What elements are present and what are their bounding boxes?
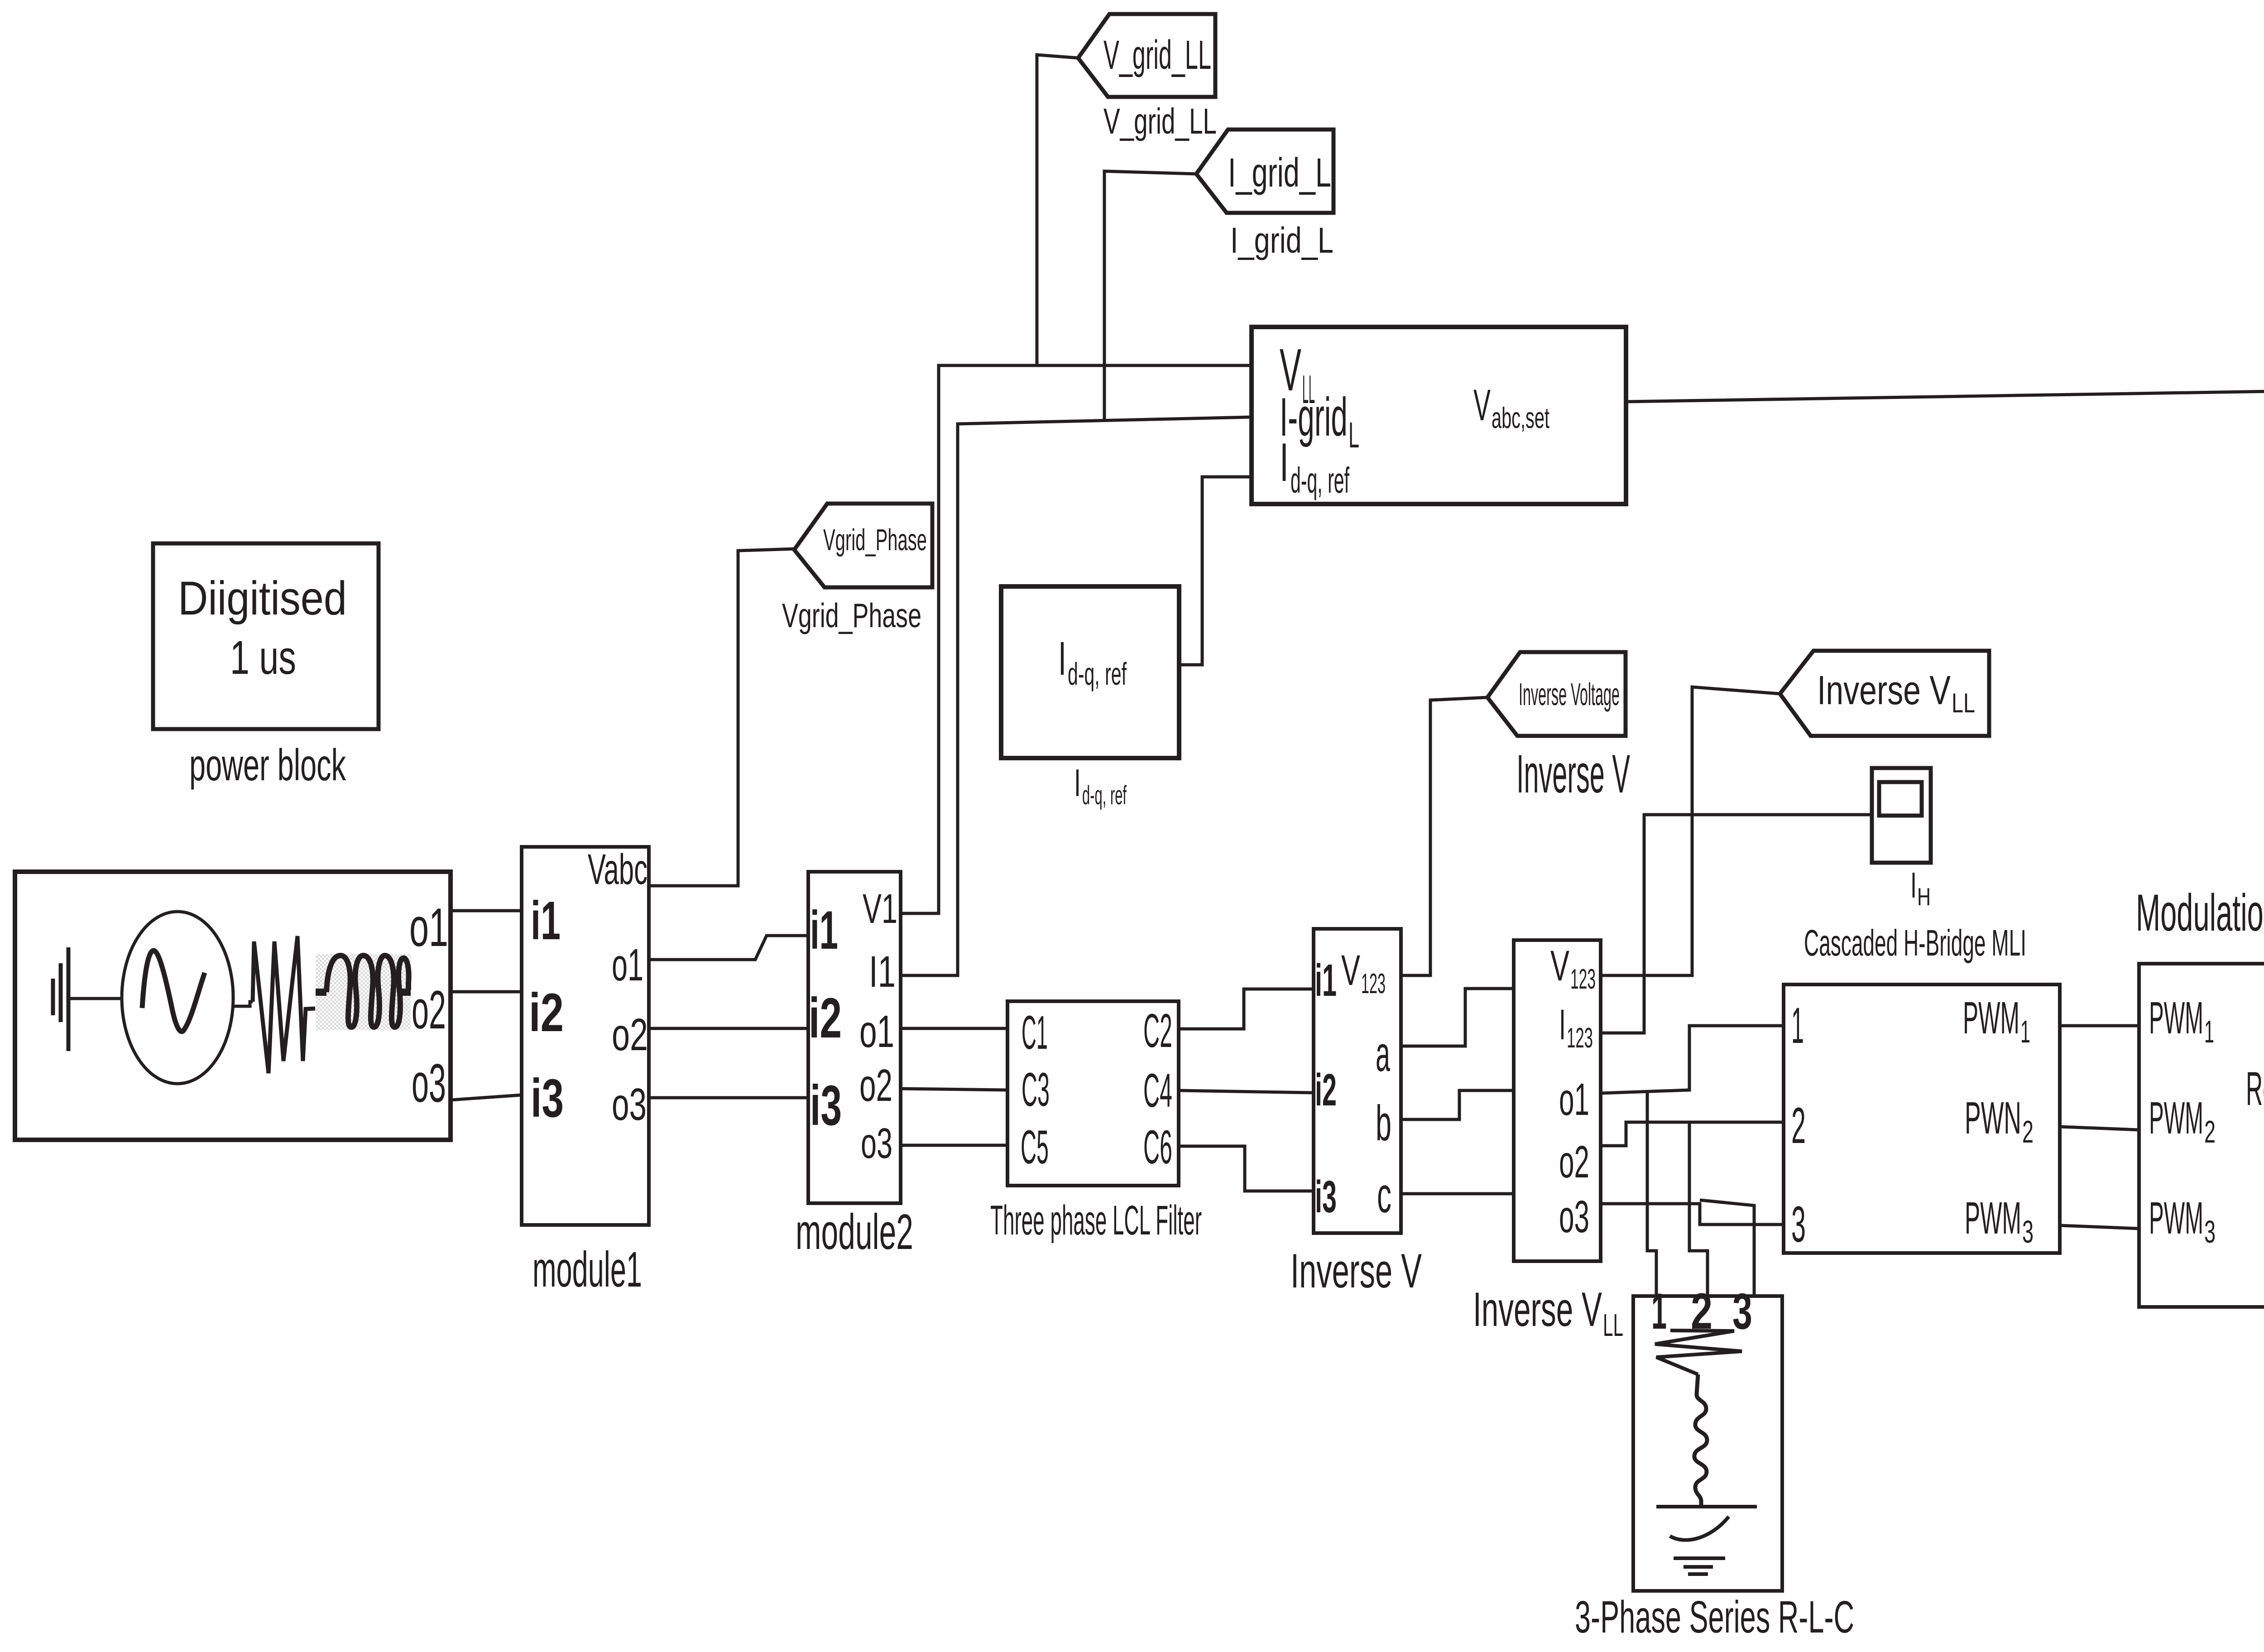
svg-text:PWM: PWM bbox=[1963, 993, 2019, 1043]
pin i2 (Inverse V) bbox=[1315, 1065, 1337, 1115]
svg-text:I-grid: I-grid bbox=[1280, 387, 1348, 447]
wire branch o3 to RLC 3 bbox=[1700, 1200, 1754, 1296]
svg-text:I: I bbox=[1280, 432, 1289, 493]
svg-text:LL: LL bbox=[1603, 1307, 1623, 1343]
svg-text:o2: o2 bbox=[612, 1009, 648, 1060]
inductor L1 bbox=[316, 954, 411, 1030]
svg-text:H: H bbox=[1917, 883, 1931, 911]
pin o3 (power block) bbox=[412, 1053, 446, 1114]
Modulation block bbox=[2139, 964, 2264, 1307]
svg-text:123: 123 bbox=[1361, 968, 1386, 999]
pin o1 (Inverse VLL) bbox=[1559, 1074, 1589, 1125]
svg-text:i1: i1 bbox=[1315, 955, 1337, 1006]
pin C5 bbox=[1021, 1121, 1049, 1174]
ground bbox=[53, 947, 68, 1051]
svg-text:c: c bbox=[1377, 1167, 1391, 1223]
svg-text:1: 1 bbox=[1651, 1283, 1667, 1340]
svg-text:PWM: PWM bbox=[2149, 993, 2203, 1043]
pin I-gridL (controller) bbox=[1280, 387, 1359, 455]
wire Inverse VLL I123 to scope IH bbox=[1601, 815, 1871, 1033]
svg-text:C3: C3 bbox=[1022, 1063, 1050, 1116]
pin Id-q,ref (controller) bbox=[1280, 432, 1349, 500]
svg-text:Inverse V: Inverse V bbox=[1516, 744, 1630, 804]
svg-text:123: 123 bbox=[1570, 964, 1596, 995]
label Inverse VLL (below block) bbox=[1473, 1282, 1623, 1343]
svg-text:i1: i1 bbox=[531, 890, 561, 951]
label IH bbox=[1910, 865, 1931, 911]
wire Inverse VLL o2 to H-bridge 2 bbox=[1601, 1122, 1784, 1146]
svg-text:PWM: PWM bbox=[1965, 1193, 2021, 1244]
label module2 bbox=[796, 1204, 913, 1260]
wire module1 o2 to module2 i2 bbox=[649, 1027, 808, 1030]
wire module2 V1 to controller VLL bbox=[901, 365, 1252, 913]
svg-text:I1: I1 bbox=[869, 947, 896, 996]
resistor R1 bbox=[253, 936, 315, 1073]
wire module2 o3 to LCL C5 bbox=[901, 1144, 1007, 1147]
pin 3 (H-bridge) bbox=[1791, 1196, 1806, 1253]
wire controller Vabc,set to modulation Ref. Signal bbox=[1626, 389, 2264, 1072]
svg-text:2: 2 bbox=[2022, 1114, 2034, 1149]
pin o2 (module2) bbox=[859, 1060, 892, 1111]
label Inverse V (below block) bbox=[1290, 1244, 1422, 1298]
pin i3 (module1) bbox=[531, 1068, 564, 1129]
svg-text:123: 123 bbox=[1567, 1023, 1593, 1054]
label Cascaded H-Bridge MLI bbox=[1804, 922, 2026, 964]
svg-text:module2: module2 bbox=[796, 1204, 913, 1260]
svg-text:3: 3 bbox=[2022, 1214, 2034, 1249]
wire Inverse V V123 to Inverse Voltage tag bbox=[1401, 697, 1487, 975]
wire H-bridge PWM3 to modulation PWM3 bbox=[2060, 1225, 2139, 1229]
wire power o2 to module1 i2 bbox=[451, 990, 522, 994]
svg-text:I_grid_L: I_grid_L bbox=[1230, 220, 1333, 260]
svg-text:2: 2 bbox=[2204, 1114, 2216, 1149]
svg-text:abc,set: abc,set bbox=[1492, 401, 1549, 434]
svg-text:PWM: PWM bbox=[2149, 1093, 2203, 1143]
svg-text:3: 3 bbox=[1791, 1196, 1806, 1253]
svg-text:Inverse V: Inverse V bbox=[1290, 1244, 1422, 1298]
wire Inverse V c to Inverse VLL o-row bbox=[1401, 1192, 1514, 1196]
wire Inverse VLL V123 to Inverse VLL tag bbox=[1601, 687, 1780, 975]
pin c (Inverse V) bbox=[1377, 1167, 1391, 1223]
svg-text:b: b bbox=[1376, 1095, 1391, 1151]
wire Inverse VLL o3 to H-bridge 3 bbox=[1601, 1204, 1784, 1225]
svg-text:o2: o2 bbox=[859, 1060, 892, 1111]
svg-text:i2: i2 bbox=[809, 987, 842, 1050]
pin o2 (power block) bbox=[412, 980, 446, 1040]
svg-text:3-Phase Series R-L-C: 3-Phase Series R-L-C bbox=[1575, 1592, 1854, 1642]
pin o1 (power block) bbox=[409, 897, 448, 958]
pin PWM3 (modulation) bbox=[2149, 1193, 2216, 1249]
pin o2 (module1) bbox=[612, 1009, 648, 1060]
label power block bbox=[189, 740, 346, 790]
wire Inverse VLL o1 to H-bridge 1 bbox=[1601, 1026, 1784, 1093]
label I_grid_L bbox=[1230, 220, 1333, 260]
svg-text:module1: module1 bbox=[532, 1242, 642, 1297]
svg-text:d-q, ref: d-q, ref bbox=[1082, 781, 1127, 810]
svg-text:o1: o1 bbox=[859, 1006, 894, 1057]
wire H-bridge PWN2 to modulation PWM2 bbox=[2060, 1127, 2139, 1130]
svg-text:1: 1 bbox=[2204, 1014, 2214, 1049]
pin i1 (module2) bbox=[810, 900, 838, 960]
LCL filter block bbox=[1007, 1001, 1179, 1186]
pin PWM1 (modulation) bbox=[2149, 993, 2214, 1049]
pin C4 bbox=[1143, 1064, 1172, 1117]
wire H-bridge PWM1 to modulation PWM1 bbox=[2060, 1024, 2139, 1028]
svg-text:I: I bbox=[1058, 632, 1066, 685]
pin a (Inverse V) bbox=[1376, 1026, 1390, 1082]
module1 block bbox=[522, 847, 649, 1225]
pin I123 (Inverse VLL) bbox=[1559, 1001, 1593, 1054]
svg-text:C2: C2 bbox=[1143, 1004, 1172, 1057]
svg-text:V: V bbox=[1341, 946, 1360, 994]
pin C6 bbox=[1143, 1121, 1172, 1174]
AC voltage source V1 bbox=[122, 912, 233, 1084]
svg-text:V_grid_LL: V_grid_LL bbox=[1103, 101, 1217, 141]
pin i2 (module2) bbox=[809, 987, 842, 1050]
svg-text:1 us: 1 us bbox=[230, 631, 296, 684]
label V_grid_LL bbox=[1103, 101, 1217, 141]
label 3-Phase Series R-L-C bbox=[1575, 1592, 1854, 1642]
wire branch o2 to RLC 2 bbox=[1689, 1122, 1708, 1296]
label Diigitised 1 us bbox=[178, 572, 347, 684]
svg-text:2: 2 bbox=[1791, 1097, 1806, 1154]
svg-text:L: L bbox=[1348, 415, 1359, 455]
wire module1 Vabc to Vgrid_Phase tag bbox=[649, 549, 794, 886]
svg-text:I: I bbox=[1074, 762, 1081, 805]
svg-text:LL: LL bbox=[1952, 688, 1975, 718]
pin b (Inverse V) bbox=[1376, 1095, 1391, 1151]
pin 1 (H-bridge) bbox=[1791, 997, 1804, 1054]
svg-text:o2: o2 bbox=[412, 980, 446, 1040]
pin PWM2 (modulation) bbox=[2149, 1093, 2216, 1149]
svg-text:o3: o3 bbox=[861, 1119, 892, 1167]
svg-text:a: a bbox=[1376, 1026, 1390, 1082]
goto tag V_grid_LL bbox=[1078, 14, 1215, 97]
pin V1 (module2) bbox=[863, 886, 897, 932]
label Three phase LCL Filter bbox=[990, 1197, 1202, 1244]
wire module2 o1 to LCL C1 bbox=[901, 1027, 1007, 1030]
Cascaded H-Bridge MLI block bbox=[1784, 984, 2060, 1253]
svg-text:d-q, ref: d-q, ref bbox=[1068, 656, 1127, 692]
svg-text:Inverse V: Inverse V bbox=[1817, 668, 1951, 713]
wire module2 I1 to controller I-gridL bbox=[901, 417, 1252, 975]
inductor L (RLC) bbox=[1694, 1374, 1707, 1507]
wire branch to V_grid_LL tag bbox=[1037, 55, 1078, 365]
svg-text:o3: o3 bbox=[612, 1079, 647, 1130]
pin o1 (module1) bbox=[612, 940, 643, 990]
svg-text:C5: C5 bbox=[1021, 1121, 1049, 1174]
goto tag Inverse VLL bbox=[1780, 651, 1989, 736]
svg-text:o1: o1 bbox=[612, 940, 643, 990]
pin 2 (RLC) bbox=[1691, 1283, 1712, 1340]
svg-text:o1: o1 bbox=[1559, 1074, 1589, 1125]
wire branch o1 to RLC 1 bbox=[1647, 1092, 1656, 1296]
wire Id-q,ref source to controller bbox=[1179, 477, 1252, 665]
wire source to resistor bbox=[233, 1002, 253, 1006]
svg-text:1: 1 bbox=[1791, 997, 1804, 1054]
svg-text:Ref. Signal: Ref. Signal bbox=[2246, 1062, 2264, 1115]
pin i1 (module1) bbox=[531, 890, 561, 951]
Inverse VLL block bbox=[1514, 940, 1601, 1261]
svg-text:C6: C6 bbox=[1143, 1121, 1172, 1174]
wire Inverse V b to Inverse VLL I123 bbox=[1401, 1090, 1514, 1119]
wire ground to source bbox=[68, 997, 122, 1000]
wire module1 o1 to module2 i1 bbox=[649, 936, 808, 960]
pin Vabc (module1) bbox=[588, 845, 648, 893]
label Modulation Block bbox=[2136, 884, 2264, 942]
pin PWM3 (H-bridge) bbox=[1965, 1193, 2034, 1249]
svg-text:C1: C1 bbox=[1022, 1006, 1048, 1059]
pin V123 (Inverse V) bbox=[1341, 946, 1386, 999]
wire LCL C6 to Inverse V i3 bbox=[1179, 1146, 1314, 1191]
label Id-q,ref (below) bbox=[1074, 762, 1127, 810]
wire Inverse V a to Inverse VLL V123 bbox=[1401, 989, 1514, 1046]
label module1 bbox=[532, 1242, 642, 1297]
svg-text:i3: i3 bbox=[1315, 1172, 1337, 1222]
pin I1 (module2) bbox=[869, 947, 896, 996]
label Vgrid_Phase bbox=[782, 596, 921, 634]
svg-text:Vgrid_Phase: Vgrid_Phase bbox=[823, 523, 927, 557]
goto tag Vgrid_Phase bbox=[794, 504, 932, 587]
svg-text:o3: o3 bbox=[412, 1053, 446, 1114]
svg-text:I: I bbox=[1559, 1001, 1566, 1049]
module2 block bbox=[808, 872, 901, 1203]
svg-text:C4: C4 bbox=[1143, 1064, 1172, 1117]
pin C1 bbox=[1022, 1006, 1048, 1059]
pin 1 (RLC) bbox=[1651, 1283, 1667, 1340]
svg-text:3: 3 bbox=[1732, 1283, 1752, 1340]
pin o2 (Inverse VLL) bbox=[1559, 1137, 1589, 1187]
ground (RLC) bbox=[1674, 1558, 1725, 1574]
svg-text:Vabc: Vabc bbox=[588, 845, 648, 893]
pin VLL (controller) bbox=[1280, 336, 1315, 412]
pin 3 (RLC) bbox=[1732, 1283, 1752, 1340]
pin i3 (Inverse V) bbox=[1315, 1172, 1337, 1222]
power source subsystem box bbox=[15, 872, 451, 1140]
svg-text:Modulation Block: Modulation Block bbox=[2136, 884, 2264, 942]
svg-text:Cascaded H-Bridge MLI: Cascaded H-Bridge MLI bbox=[1804, 922, 2026, 964]
pin i3 (module2) bbox=[810, 1074, 842, 1137]
svg-text:power block: power block bbox=[189, 740, 346, 790]
wire branch to I_grid_L tag bbox=[1104, 171, 1196, 422]
svg-text:3: 3 bbox=[2204, 1214, 2216, 1249]
svg-text:o2: o2 bbox=[1559, 1137, 1589, 1187]
svg-text:o3: o3 bbox=[1559, 1191, 1589, 1242]
pin C3 bbox=[1022, 1063, 1050, 1116]
svg-text:Inverse V: Inverse V bbox=[1473, 1282, 1602, 1336]
svg-text:Vgrid_Phase: Vgrid_Phase bbox=[782, 596, 921, 634]
svg-text:o1: o1 bbox=[409, 897, 448, 958]
3-phase series RLC load block bbox=[1633, 1296, 1782, 1591]
pin Ref. Signal (modulation) bbox=[2246, 1062, 2264, 1115]
wire LCL C2 to Inverse V i1 bbox=[1179, 989, 1314, 1029]
label Id-q,ref (inside) bbox=[1058, 632, 1127, 692]
svg-text:Three phase LCL Filter: Three phase LCL Filter bbox=[990, 1197, 1202, 1244]
wire module1 o3 to module2 i3 bbox=[649, 1096, 808, 1100]
svg-text:PWM: PWM bbox=[2149, 1193, 2203, 1244]
wire module2 o2 to LCL C3 bbox=[901, 1089, 1007, 1090]
capacitor C (RLC) bbox=[1656, 1507, 1757, 1540]
wire power o3 to module1 i3 bbox=[451, 1095, 522, 1100]
Inverse V block bbox=[1314, 929, 1401, 1233]
pin i1 (Inverse V) bbox=[1315, 955, 1337, 1006]
svg-text:V: V bbox=[1550, 942, 1569, 990]
controller block Vabc,set bbox=[1252, 327, 1626, 504]
pin o3 (module2) bbox=[861, 1119, 892, 1167]
pin o1 (module2) bbox=[859, 1006, 894, 1057]
pin Vabc,set output (controller) bbox=[1473, 380, 1549, 434]
pin PWM1 (H-bridge) bbox=[1963, 993, 2030, 1049]
svg-text:PWN: PWN bbox=[1965, 1093, 2021, 1143]
svg-text:i3: i3 bbox=[810, 1074, 842, 1137]
pin i2 (module1) bbox=[529, 982, 564, 1043]
Digitised sample-time block bbox=[153, 543, 379, 729]
svg-text:I_grid_L: I_grid_L bbox=[1228, 150, 1331, 196]
pin o3 (Inverse VLL) bbox=[1559, 1191, 1589, 1242]
svg-text:i2: i2 bbox=[529, 982, 564, 1043]
reference source block Id-q,ref bbox=[1001, 586, 1179, 758]
svg-text:V1: V1 bbox=[863, 886, 897, 932]
svg-text:Diigitised: Diigitised bbox=[178, 572, 347, 625]
pin C2 bbox=[1143, 1004, 1172, 1057]
pin 2 (H-bridge) bbox=[1791, 1097, 1806, 1154]
pin PWN2 (H-bridge) bbox=[1965, 1093, 2034, 1149]
scope IH bbox=[1872, 768, 1931, 863]
label Inverse V bbox=[1516, 744, 1630, 804]
goto tag Inverse Voltage bbox=[1487, 652, 1626, 736]
pin o3 (module1) bbox=[612, 1079, 647, 1130]
svg-text:d-q, ref: d-q, ref bbox=[1290, 460, 1349, 500]
resistor R (RLC) bbox=[1655, 1330, 1742, 1374]
svg-text:i3: i3 bbox=[531, 1068, 564, 1129]
svg-text:I: I bbox=[1910, 865, 1917, 905]
goto tag I_grid_L bbox=[1196, 130, 1333, 213]
wire LCL C4 to Inverse V i2 bbox=[1179, 1090, 1314, 1093]
svg-text:V_grid_LL: V_grid_LL bbox=[1103, 33, 1211, 78]
svg-text:V: V bbox=[1473, 380, 1491, 430]
pin V123 (Inverse VLL) bbox=[1550, 942, 1596, 995]
wire power o1 to module1 i1 bbox=[451, 909, 522, 912]
svg-text:i2: i2 bbox=[1315, 1065, 1337, 1115]
svg-text:1: 1 bbox=[2020, 1014, 2030, 1049]
svg-text:i1: i1 bbox=[810, 900, 838, 960]
svg-text:Inverse Voltage: Inverse Voltage bbox=[1519, 677, 1620, 712]
